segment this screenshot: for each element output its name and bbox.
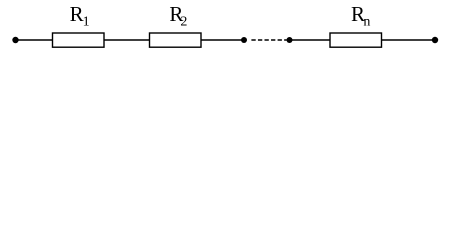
svg-text:R: R — [70, 2, 84, 26]
svg-text:n: n — [363, 15, 370, 30]
resistor R2 (box) — [150, 33, 202, 47]
svg-text:2: 2 — [180, 15, 187, 30]
node B (right output terminal dot) — [432, 37, 438, 43]
wire from R2 to junction — [201, 39, 244, 41]
wire (dashed continuation, omitted resistors) — [251, 39, 286, 41]
wire from left terminal to R1 — [16, 39, 53, 41]
svg-text:1: 1 — [83, 15, 90, 30]
wire from junction to Rn — [290, 39, 331, 41]
junction node (right dot of dashed gap) — [287, 37, 293, 43]
wire from Rn to right terminal — [382, 39, 436, 41]
resistor Rn (box) — [330, 33, 382, 47]
resistor R1 (box) — [53, 33, 105, 47]
node A (left input terminal dot) — [12, 37, 18, 43]
junction node (left dot of dashed gap) — [241, 37, 247, 43]
wire between R1 and R2 — [104, 39, 149, 41]
